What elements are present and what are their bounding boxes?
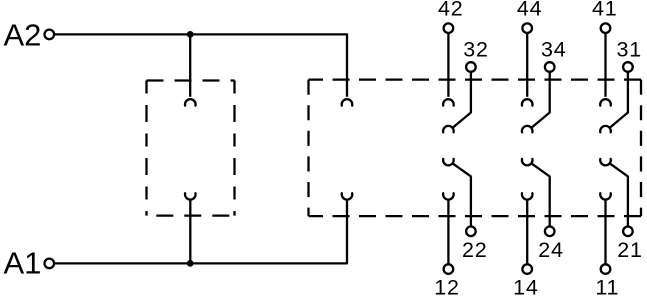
terminal 22 [466,227,476,237]
wire terminal 44 to jaw [526,33,528,97]
svg-text:24: 24 [538,238,564,262]
svg-text:A2: A2 [4,17,42,52]
blade jaw 24 [522,159,533,165]
wire terminal 41 to jaw [604,33,606,97]
wire A1 terminal to junction [54,262,190,264]
terminal 24 [545,227,555,237]
terminal 34 [545,62,555,72]
wire terminal 31 with blade [610,72,628,128]
socket jaw module A2 [185,99,196,105]
socket jaw relay coil A1 with wire [342,193,353,263]
junction A1 node [187,260,194,267]
blade jaw 31 [600,126,611,132]
svg-text:44: 44 [517,0,543,21]
module (dashed outline) [147,79,235,81]
svg-text:34: 34 [541,37,567,61]
svg-text:11: 11 [595,276,619,298]
socket jaw 14 with wire [522,193,533,264]
socket jaw 41 [600,99,611,105]
socket jaw 42 [443,99,454,105]
wire terminal 32 with blade [453,72,471,128]
terminal 42 [444,23,454,33]
terminal 44 [522,23,532,33]
terminal 31 [623,62,633,72]
svg-text:A1: A1 [4,245,42,280]
junction A2 node [187,31,194,38]
terminal 21 [623,227,633,237]
terminal 41 [601,23,611,33]
terminal A2 [45,30,55,40]
socket jaw module A1 with wire [185,193,196,263]
wire terminal 34 with blade [531,72,549,128]
terminal 12 [444,264,454,274]
svg-text:42: 42 [438,0,464,21]
svg-text:12: 12 [434,276,460,298]
svg-text:14: 14 [513,276,539,298]
socket jaw relay coil A2 [342,99,353,105]
wire A2 junction to relay coil pin [190,34,347,96]
wire terminal 21 with blade [610,163,628,226]
svg-text:31: 31 [617,37,643,61]
wire A1 junction to relay coil pin [190,262,347,264]
socket jaw 11 with wire [600,193,611,264]
terminal A1 [45,259,55,269]
terminal 14 [522,264,532,274]
svg-text:41: 41 [592,0,618,21]
terminal 11 [601,264,611,274]
svg-text:22: 22 [462,238,488,262]
blade jaw 32 [443,126,454,132]
blade jaw 22 [443,159,454,165]
terminal 32 [466,62,476,72]
blade jaw 21 [600,159,611,165]
socket jaw 44 [522,99,533,105]
wire terminal 22 with blade [453,163,471,226]
relay (dashed outline) [309,80,642,217]
socket jaw 12 with wire [443,193,454,264]
svg-text:21: 21 [617,238,643,262]
wire terminal 24 with blade [531,163,549,226]
wire A2 terminal to junction [54,33,190,35]
wire A2 branch to module pin [189,34,191,96]
svg-text:32: 32 [463,37,489,61]
wire terminal 42 to jaw [447,33,449,97]
blade jaw 34 [522,126,533,132]
